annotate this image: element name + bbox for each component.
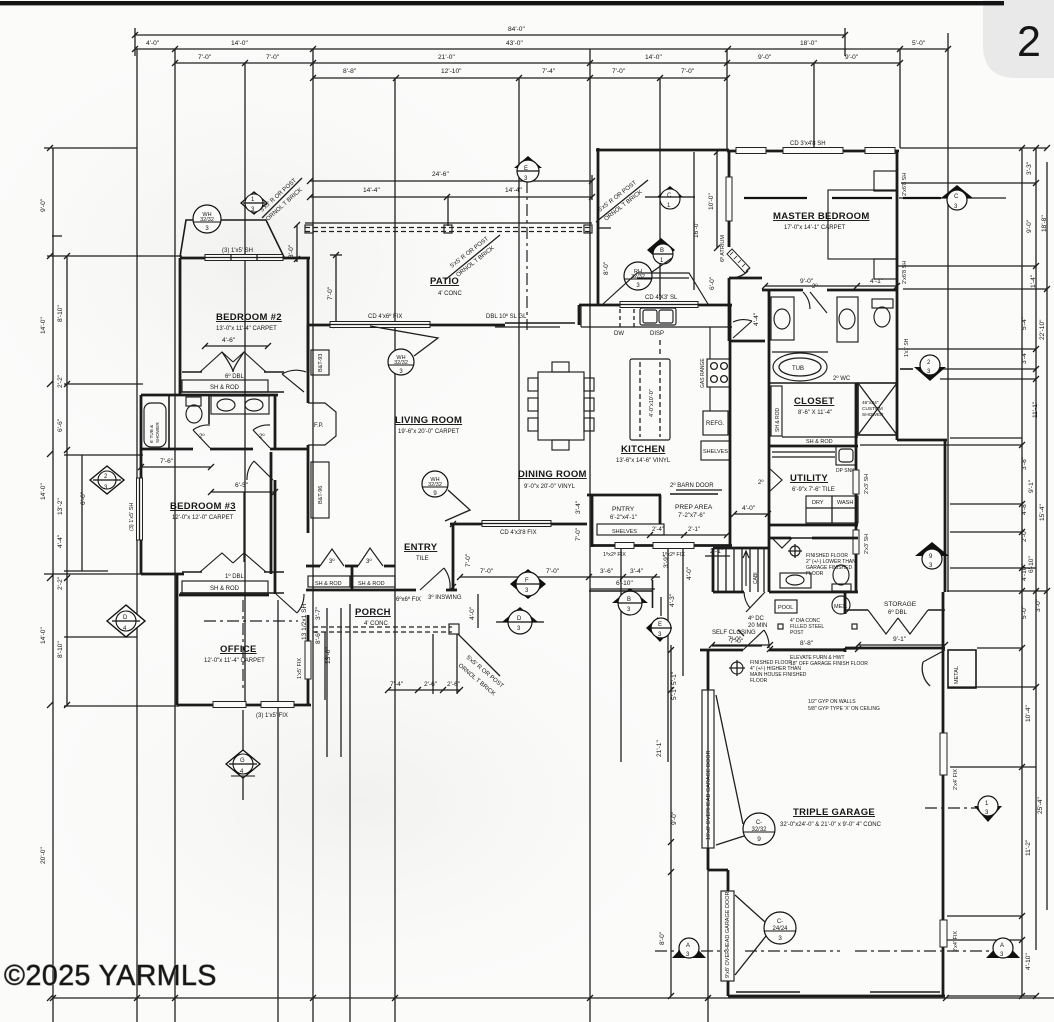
kitchen sink	[640, 308, 676, 325]
vanity bath2	[211, 396, 269, 414]
vertical extension line x=519	[518, 78, 520, 524]
overhead door 2	[721, 891, 734, 981]
front wall right segment	[446, 589, 457, 592]
svg-text:9'x8' OVERHEAD GARAGE DOOR: 9'x8' OVERHEAD GARAGE DOOR	[725, 892, 731, 978]
svg-text:12'-0"x 11'-4" CARPET: 12'-0"x 11'-4" CARPET	[204, 658, 265, 664]
svg-text:3'-6": 3'-6"	[600, 568, 614, 575]
utility bottom wall	[769, 524, 858, 527]
svg-text:16'x8' OVERHEAD GARAGE DOOR: 16'x8' OVERHEAD GARAGE DOOR	[706, 750, 712, 840]
bedroom2 left wall	[179, 258, 182, 395]
vertical extension line x=727	[726, 49, 728, 150]
diamond 2/3 right of closet	[900, 355, 946, 381]
utility door	[769, 468, 782, 492]
svg-text:32/32: 32/32	[751, 827, 767, 833]
svg-text:14'-0": 14'-0"	[231, 40, 248, 47]
svg-text:11'-1": 11'-1"	[1032, 401, 1039, 418]
svg-text:3'-4": 3'-4"	[1021, 350, 1028, 364]
svg-text:BEDROOM #2: BEDROOM #2	[216, 312, 282, 323]
vertical extension line x=53 left	[52, 148, 54, 1022]
diamond E/3 patio top	[514, 156, 542, 182]
living west wall lower	[307, 445, 310, 452]
shelves box kitchen	[701, 441, 730, 460]
svg-text:F.P.: F.P.	[314, 423, 324, 429]
diamond D/3	[496, 607, 544, 634]
chairs right	[584, 378, 594, 391]
diamond C/1 wing	[645, 186, 695, 209]
bedroom3 door top-right	[247, 461, 273, 480]
svg-text:E: E	[524, 166, 528, 172]
svg-text:6'-0": 6'-0"	[709, 276, 716, 290]
windows on east wall	[853, 470, 859, 494]
tub	[144, 403, 166, 447]
kitchen top wall	[579, 304, 598, 307]
svg-text:CD 4'X3' SL: CD 4'X3' SL	[645, 295, 678, 301]
patio dim line 24'-6"	[310, 180, 592, 182]
svg-text:METAL: METAL	[954, 666, 960, 684]
office centerlines	[242, 600, 244, 690]
slider jog	[578, 305, 581, 325]
living west wall upper	[307, 325, 310, 403]
svg-text:CD 3'x4'8 SH: CD 3'x4'8 SH	[790, 141, 826, 147]
svg-text:4'-0"x10'-0": 4'-0"x10'-0"	[649, 389, 655, 417]
svg-text:32/32: 32/32	[394, 360, 408, 366]
svg-text:2'-0": 2'-0"	[1021, 528, 1028, 542]
svg-text:4'-4": 4'-4"	[753, 312, 760, 326]
svg-text:6'-0": 6'-0"	[80, 491, 87, 505]
svg-text:PREP AREA: PREP AREA	[675, 504, 713, 511]
svg-text:SH & ROD: SH & ROD	[315, 581, 342, 587]
svg-text:3'-8": 3'-8"	[1021, 456, 1028, 470]
svg-text:2º BARN DOOR: 2º BARN DOOR	[670, 482, 714, 489]
bedroom2 right wall	[307, 258, 310, 372]
utility east wall	[855, 446, 858, 592]
vertical extension line x=683	[682, 548, 684, 676]
svg-text:14'-4": 14'-4"	[363, 187, 380, 194]
living top wall	[308, 324, 505, 327]
bay roof trapezoid bedroom2	[180, 220, 284, 257]
kitchen east wall	[729, 305, 732, 493]
office right wall	[307, 615, 310, 705]
dining south wall	[450, 523, 587, 526]
svg-text:CUSTOM: CUSTOM	[862, 406, 883, 412]
diamond 1/3 right mid	[925, 796, 1002, 822]
svg-text:6' TUB &: 6' TUB &	[149, 425, 154, 443]
svg-text:4'-1": 4'-1"	[870, 278, 884, 285]
washer dryer	[806, 496, 832, 523]
barn door	[670, 493, 718, 495]
svg-text:G: G	[240, 758, 245, 764]
svg-text:3º: 3º	[329, 558, 335, 565]
patio dim 7'-0"	[335, 255, 337, 325]
diamond F/3	[510, 569, 546, 599]
svg-text:22'-10": 22'-10"	[1039, 319, 1046, 340]
vertical extension line x=245	[244, 63, 246, 706]
svg-text:1/2" GYP ON WALLS: 1/2" GYP ON WALLS	[808, 699, 856, 705]
svg-text:18" OFF GARAGE FINISH FLOOR: 18" OFF GARAGE FINISH FLOOR	[790, 661, 868, 667]
tub	[773, 353, 827, 381]
svg-text:DRY: DRY	[812, 500, 824, 506]
hall wall right of bath	[274, 395, 277, 449]
bedroom3 window left	[137, 478, 143, 540]
svg-text:7'-0": 7'-0"	[612, 68, 626, 75]
bath2 top wall	[141, 394, 278, 397]
svg-text:PATIO: PATIO	[430, 276, 459, 287]
svg-text:32'-0"x24'-0" & 21'-0" x 9'-0": 32'-0"x24'-0" & 21'-0" x 9'-0" 4" CONC	[780, 822, 882, 828]
svg-text:10'-0": 10'-0"	[708, 193, 715, 210]
kitchen counters	[581, 326, 732, 328]
crosshair	[790, 546, 800, 556]
mech circle	[832, 596, 850, 614]
dim row 4: 8-8 / 12-10 / 7-4 / 7-0 / 7-0	[310, 68, 730, 81]
porch dim vertical lines	[324, 632, 326, 700]
toilet bath2	[186, 397, 201, 406]
svg-text:6'-10": 6'-10"	[1028, 556, 1035, 573]
svg-text:32/32: 32/32	[200, 217, 214, 223]
svg-text:(3) 1'x5' SH: (3) 1'x5' SH	[222, 248, 253, 254]
svg-text:15'-4": 15'-4"	[1039, 504, 1046, 521]
self-closing door to garage	[743, 630, 769, 650]
svg-text:TUB: TUB	[792, 366, 804, 372]
master top wall	[727, 150, 899, 153]
svg-text:KITCHEN: KITCHEN	[621, 444, 665, 455]
svg-text:8'-6": 8'-6"	[315, 630, 322, 644]
svg-text:18'-0": 18'-0"	[800, 40, 817, 47]
svg-text:20'-0": 20'-0"	[40, 847, 47, 864]
vertical extension line x=621	[620, 548, 622, 762]
svg-text:DP SNK: DP SNK	[836, 468, 855, 474]
svg-text:DW: DW	[614, 331, 624, 337]
svg-text:C: C	[954, 194, 959, 200]
svg-text:2'x4' FIX: 2'x4' FIX	[953, 769, 959, 790]
vanity 2	[837, 297, 858, 342]
svg-text:2º: 2º	[812, 283, 818, 290]
living top window	[330, 322, 430, 328]
svg-text:4' CONC: 4' CONC	[364, 621, 388, 627]
svg-text:REFG.: REFG.	[706, 421, 725, 427]
svg-text:ENTRY: ENTRY	[404, 542, 438, 553]
svg-text:24'-6": 24'-6"	[432, 171, 449, 178]
svg-text:4'-10": 4'-10"	[1021, 564, 1028, 581]
svg-text:POOL: POOL	[778, 605, 793, 611]
circle WH 32/32 bed2	[193, 205, 221, 233]
svg-text:SHELVES: SHELVES	[703, 449, 728, 455]
wing top wall	[596, 149, 729, 152]
shower	[858, 383, 897, 435]
pool box	[775, 600, 797, 613]
diamond B/3 wing	[647, 238, 675, 264]
svg-text:6º ATRIUM: 6º ATRIUM	[719, 235, 726, 262]
svg-text:2º: 2º	[259, 433, 265, 440]
svg-text:DBL 10º SL GL: DBL 10º SL GL	[486, 313, 527, 320]
svg-text:CD 4'x6º FIX: CD 4'x6º FIX	[368, 313, 402, 320]
overhead door 1	[702, 690, 714, 848]
svg-text:9'-0": 9'-0"	[40, 198, 47, 212]
bedroom2 window top	[205, 255, 283, 261]
ceiling beam dash	[744, 197, 892, 199]
svg-text:6'-6": 6'-6"	[57, 418, 64, 432]
master east window boxes	[874, 171, 897, 191]
svg-text:8'-8": 8'-8"	[800, 640, 814, 647]
svg-text:C-: C-	[756, 820, 762, 826]
utility shelves	[772, 451, 835, 453]
wing west wall	[597, 148, 600, 305]
svg-text:2'x6'8 SH: 2'x6'8 SH	[902, 173, 908, 196]
svg-text:5'-1": 5'-1"	[671, 671, 678, 685]
svg-text:46"x34": 46"x34"	[862, 400, 879, 406]
svg-text:7'-0": 7'-0"	[480, 568, 494, 575]
svg-text:LIVING ROOM: LIVING ROOM	[395, 415, 462, 426]
front wall left segment	[395, 589, 416, 592]
svg-text:B&T-96: B&T-96	[318, 486, 324, 504]
bed3 closet doors	[200, 553, 266, 572]
patio centerline	[526, 158, 528, 330]
east windows	[940, 733, 947, 775]
svg-text:7'-0": 7'-0"	[465, 553, 472, 567]
office left wall	[176, 574, 179, 705]
svg-text:1º DBL: 1º DBL	[225, 573, 245, 580]
svg-text:4'-8": 4'-8"	[1021, 501, 1028, 515]
svg-text:(3) 1'x5' SH: (3) 1'x5' SH	[129, 503, 135, 531]
svg-text:9'-1": 9'-1"	[1028, 479, 1035, 493]
svg-text:2º: 2º	[199, 433, 205, 440]
chairs left	[528, 378, 538, 391]
pantry west wall	[591, 495, 594, 547]
pantry top wall	[587, 494, 661, 497]
vertical extension line x=313	[312, 49, 314, 1022]
svg-text:10'-4": 10'-4"	[1025, 705, 1032, 722]
garage west jog	[707, 848, 710, 870]
svg-text:8'-0": 8'-0"	[659, 931, 666, 945]
left ticks	[47, 145, 70, 1001]
svg-text:D: D	[517, 616, 522, 622]
svg-text:21'-1": 21'-1"	[656, 740, 663, 757]
vertical extension line x=350 porch	[349, 604, 351, 1022]
svg-text:4'-6": 4'-6"	[222, 337, 236, 344]
vertical extension line x=948	[947, 33, 949, 592]
svg-text:14'-0": 14'-0"	[40, 483, 47, 500]
bath2 south wall	[141, 448, 193, 451]
dining south window	[482, 521, 551, 527]
svg-text:7'-4": 7'-4"	[542, 68, 556, 75]
svg-text:7'-6": 7'-6"	[160, 458, 174, 465]
bedroom2 top wall	[180, 257, 310, 260]
svg-text:D: D	[123, 615, 128, 621]
svg-text:25'-4": 25'-4"	[1037, 797, 1044, 814]
svg-text:CLOSET: CLOSET	[794, 396, 834, 407]
bottom dimension line	[50, 995, 1054, 1001]
svg-text:19'-6"x 20'-0" CARPET: 19'-6"x 20'-0" CARPET	[398, 429, 460, 435]
bath door	[803, 292, 827, 313]
master east wall	[896, 151, 899, 440]
svg-text:5'-0": 5'-0"	[1021, 605, 1028, 619]
svg-text:20 MIN: 20 MIN	[748, 623, 767, 629]
master top windows	[736, 148, 766, 154]
porch post extension lines	[326, 608, 328, 757]
diamond marker bed2	[241, 192, 267, 214]
bed3 closet shelf box	[182, 581, 268, 593]
svg-text:6'-9"x 7'-6" TILE: 6'-9"x 7'-6" TILE	[792, 487, 835, 493]
svg-text:WASH: WASH	[837, 500, 853, 506]
vertical extension line x=814	[813, 63, 815, 148]
svg-text:32/32: 32/32	[428, 482, 442, 488]
svg-text:A: A	[1000, 943, 1004, 949]
svg-text:CABI: CABI	[753, 572, 759, 584]
svg-text:11'-2": 11'-2"	[1025, 839, 1032, 856]
wall to garage-side	[897, 439, 947, 442]
svg-text:13'-0": 13'-0"	[325, 647, 332, 664]
entry closet doors	[320, 549, 344, 566]
vanity 1	[771, 297, 794, 340]
chair top / bottom	[552, 362, 569, 372]
svg-text:5'-0": 5'-0"	[912, 40, 926, 47]
svg-text:3'-4": 3'-4"	[630, 568, 644, 575]
svg-text:2'x3' SH: 2'x3' SH	[864, 534, 870, 554]
pool sink	[780, 573, 811, 588]
svg-text:5/8" GYP TYPE 'X' ON CEILING: 5/8" GYP TYPE 'X' ON CEILING	[808, 706, 880, 712]
island	[630, 359, 670, 440]
svg-text:3'-0": 3'-0"	[1035, 598, 1042, 612]
svg-text:BEDROOM #3: BEDROOM #3	[170, 501, 236, 512]
svg-text:3'-3": 3'-3"	[1026, 161, 1033, 175]
dim row 3: 7-0 7-0 21-0 14-0 9-0 9-0	[172, 54, 903, 66]
south wall of wing	[769, 591, 858, 594]
svg-text:6'-5": 6'-5"	[235, 482, 249, 489]
svg-text:1'x1' SH: 1'x1' SH	[904, 338, 910, 357]
svg-text:(3) 1'x5' FIX: (3) 1'x5' FIX	[256, 713, 288, 719]
svg-text:4'-0": 4'-0"	[146, 40, 160, 47]
svg-text:1'x5' FIX: 1'x5' FIX	[297, 658, 303, 679]
svg-text:18'-8": 18'-8"	[1041, 215, 1048, 232]
dp sink	[836, 446, 856, 465]
svg-text:3º: 3º	[366, 558, 372, 565]
diamond B/3 pantry	[589, 580, 653, 615]
svg-text:14'-0": 14'-0"	[40, 317, 47, 334]
svg-text:9'-0"x 20'-0" VINYL: 9'-0"x 20'-0" VINYL	[524, 484, 576, 490]
patio roof dashed edge	[305, 222, 592, 224]
circle RH 32/32 wing	[624, 258, 672, 290]
svg-text:3'-4": 3'-4"	[575, 500, 582, 514]
left dim col x=67	[66, 256, 68, 706]
diamond D/4 left office	[107, 605, 145, 637]
front door	[420, 568, 450, 590]
svg-text:B: B	[660, 248, 664, 254]
gas range	[707, 359, 730, 387]
svg-text:84'-0": 84'-0"	[508, 26, 525, 33]
dim row 84'-0"	[132, 26, 848, 56]
pantry/prep south wall	[592, 544, 732, 547]
svg-text:PORCH: PORCH	[355, 607, 391, 618]
svg-text:SH & ROD: SH & ROD	[806, 439, 833, 445]
svg-text:2'x4' FIX: 2'x4' FIX	[953, 931, 959, 952]
toilet divider	[208, 395, 210, 424]
master bath west wall	[768, 290, 771, 592]
diamond A/3 left	[672, 938, 706, 958]
pool bath top wall	[769, 537, 791, 540]
closet boxes	[308, 576, 350, 587]
svg-text:3'-9": 3'-9"	[663, 554, 670, 568]
svg-text:DINING ROOM: DINING ROOM	[518, 469, 587, 480]
finished floor note kitchen side	[731, 662, 743, 674]
storage walls	[844, 592, 847, 614]
svg-text:2: 2	[1017, 18, 1041, 66]
master suite door	[733, 320, 752, 338]
svg-text:©2025 YARMLS: ©2025 YARMLS	[4, 960, 217, 992]
top black bar	[0, 1, 1008, 5]
pantry shelves	[597, 524, 664, 535]
left garage dims	[670, 645, 672, 996]
svg-text:4'-0": 4'-0"	[686, 566, 693, 580]
svg-text:4'-10": 4'-10"	[1025, 953, 1032, 970]
diamond 9/3 rear porch	[915, 542, 949, 569]
vertical extension line x=708	[707, 650, 709, 1022]
dining table	[538, 372, 584, 440]
svg-text:B&T-93: B&T-93	[318, 354, 324, 372]
patio post left	[305, 225, 313, 233]
svg-text:4'-0": 4'-0"	[469, 606, 476, 620]
svg-text:MASTER BEDROOM: MASTER BEDROOM	[773, 211, 870, 222]
svg-text:OFFICE: OFFICE	[220, 644, 257, 655]
vertical extension line x=137	[136, 49, 138, 1022]
svg-text:7'-0": 7'-0"	[198, 54, 212, 61]
svg-text:2'-2": 2'-2"	[57, 576, 64, 590]
svg-text:TRIPLE GARAGE: TRIPLE GARAGE	[793, 807, 875, 818]
svg-text:2'-4": 2'-4"	[652, 527, 664, 533]
svg-text:GAS RANGE: GAS RANGE	[700, 358, 706, 388]
page number blob	[983, 0, 1054, 78]
stair hall	[712, 548, 715, 592]
prep east wall	[729, 493, 732, 547]
circle WH living	[370, 326, 438, 375]
vertical extension line x=175	[174, 49, 176, 1022]
bedroom3 south wall	[141, 573, 184, 576]
svg-text:SH & ROD: SH & ROD	[210, 385, 240, 391]
diamond A/3 right	[986, 938, 1020, 958]
office bottom wall	[177, 704, 311, 707]
master toilet	[872, 299, 893, 308]
wing angled counter	[603, 273, 708, 304]
svg-text:DISP: DISP	[650, 331, 664, 337]
svg-text:2º WC: 2º WC	[833, 375, 851, 382]
circle WH entry	[422, 471, 470, 521]
svg-text:6ºx6º FIX: 6ºx6º FIX	[396, 596, 421, 603]
diamond C/3 right margin	[899, 185, 1006, 210]
svg-text:F: F	[525, 578, 529, 584]
svg-text:FLOOR: FLOOR	[750, 678, 768, 684]
svg-text:2'-1": 2'-1"	[688, 527, 700, 533]
office window right	[305, 641, 311, 679]
svg-text:SH & ROD: SH & ROD	[358, 581, 385, 587]
DW dashed	[620, 309, 634, 330]
svg-text:7'-2"x7'-6": 7'-2"x7'-6"	[678, 513, 705, 519]
svg-text:14'-0": 14'-0"	[40, 627, 47, 644]
svg-text:6º DBL: 6º DBL	[225, 373, 245, 380]
svg-text:2'x3' SH: 2'x3' SH	[864, 474, 870, 494]
svg-text:C-: C-	[777, 919, 783, 925]
svg-text:4' CONC: 4' CONC	[438, 291, 462, 297]
diamond E/3 prep	[646, 597, 672, 642]
patio post mid	[444, 225, 452, 233]
svg-text:12'-10": 12'-10"	[441, 68, 462, 75]
closet bottom shelf	[782, 436, 858, 438]
vertical extension line x=278 porch	[277, 600, 279, 1022]
garage top wall	[700, 649, 743, 652]
patio post right	[584, 225, 592, 233]
svg-text:9: 9	[757, 836, 761, 843]
svg-text:FLOOR: FLOOR	[806, 571, 824, 577]
svg-text:TILE: TILE	[416, 556, 429, 562]
metal closet	[948, 650, 976, 688]
svg-text:14'-0": 14'-0"	[645, 54, 662, 61]
